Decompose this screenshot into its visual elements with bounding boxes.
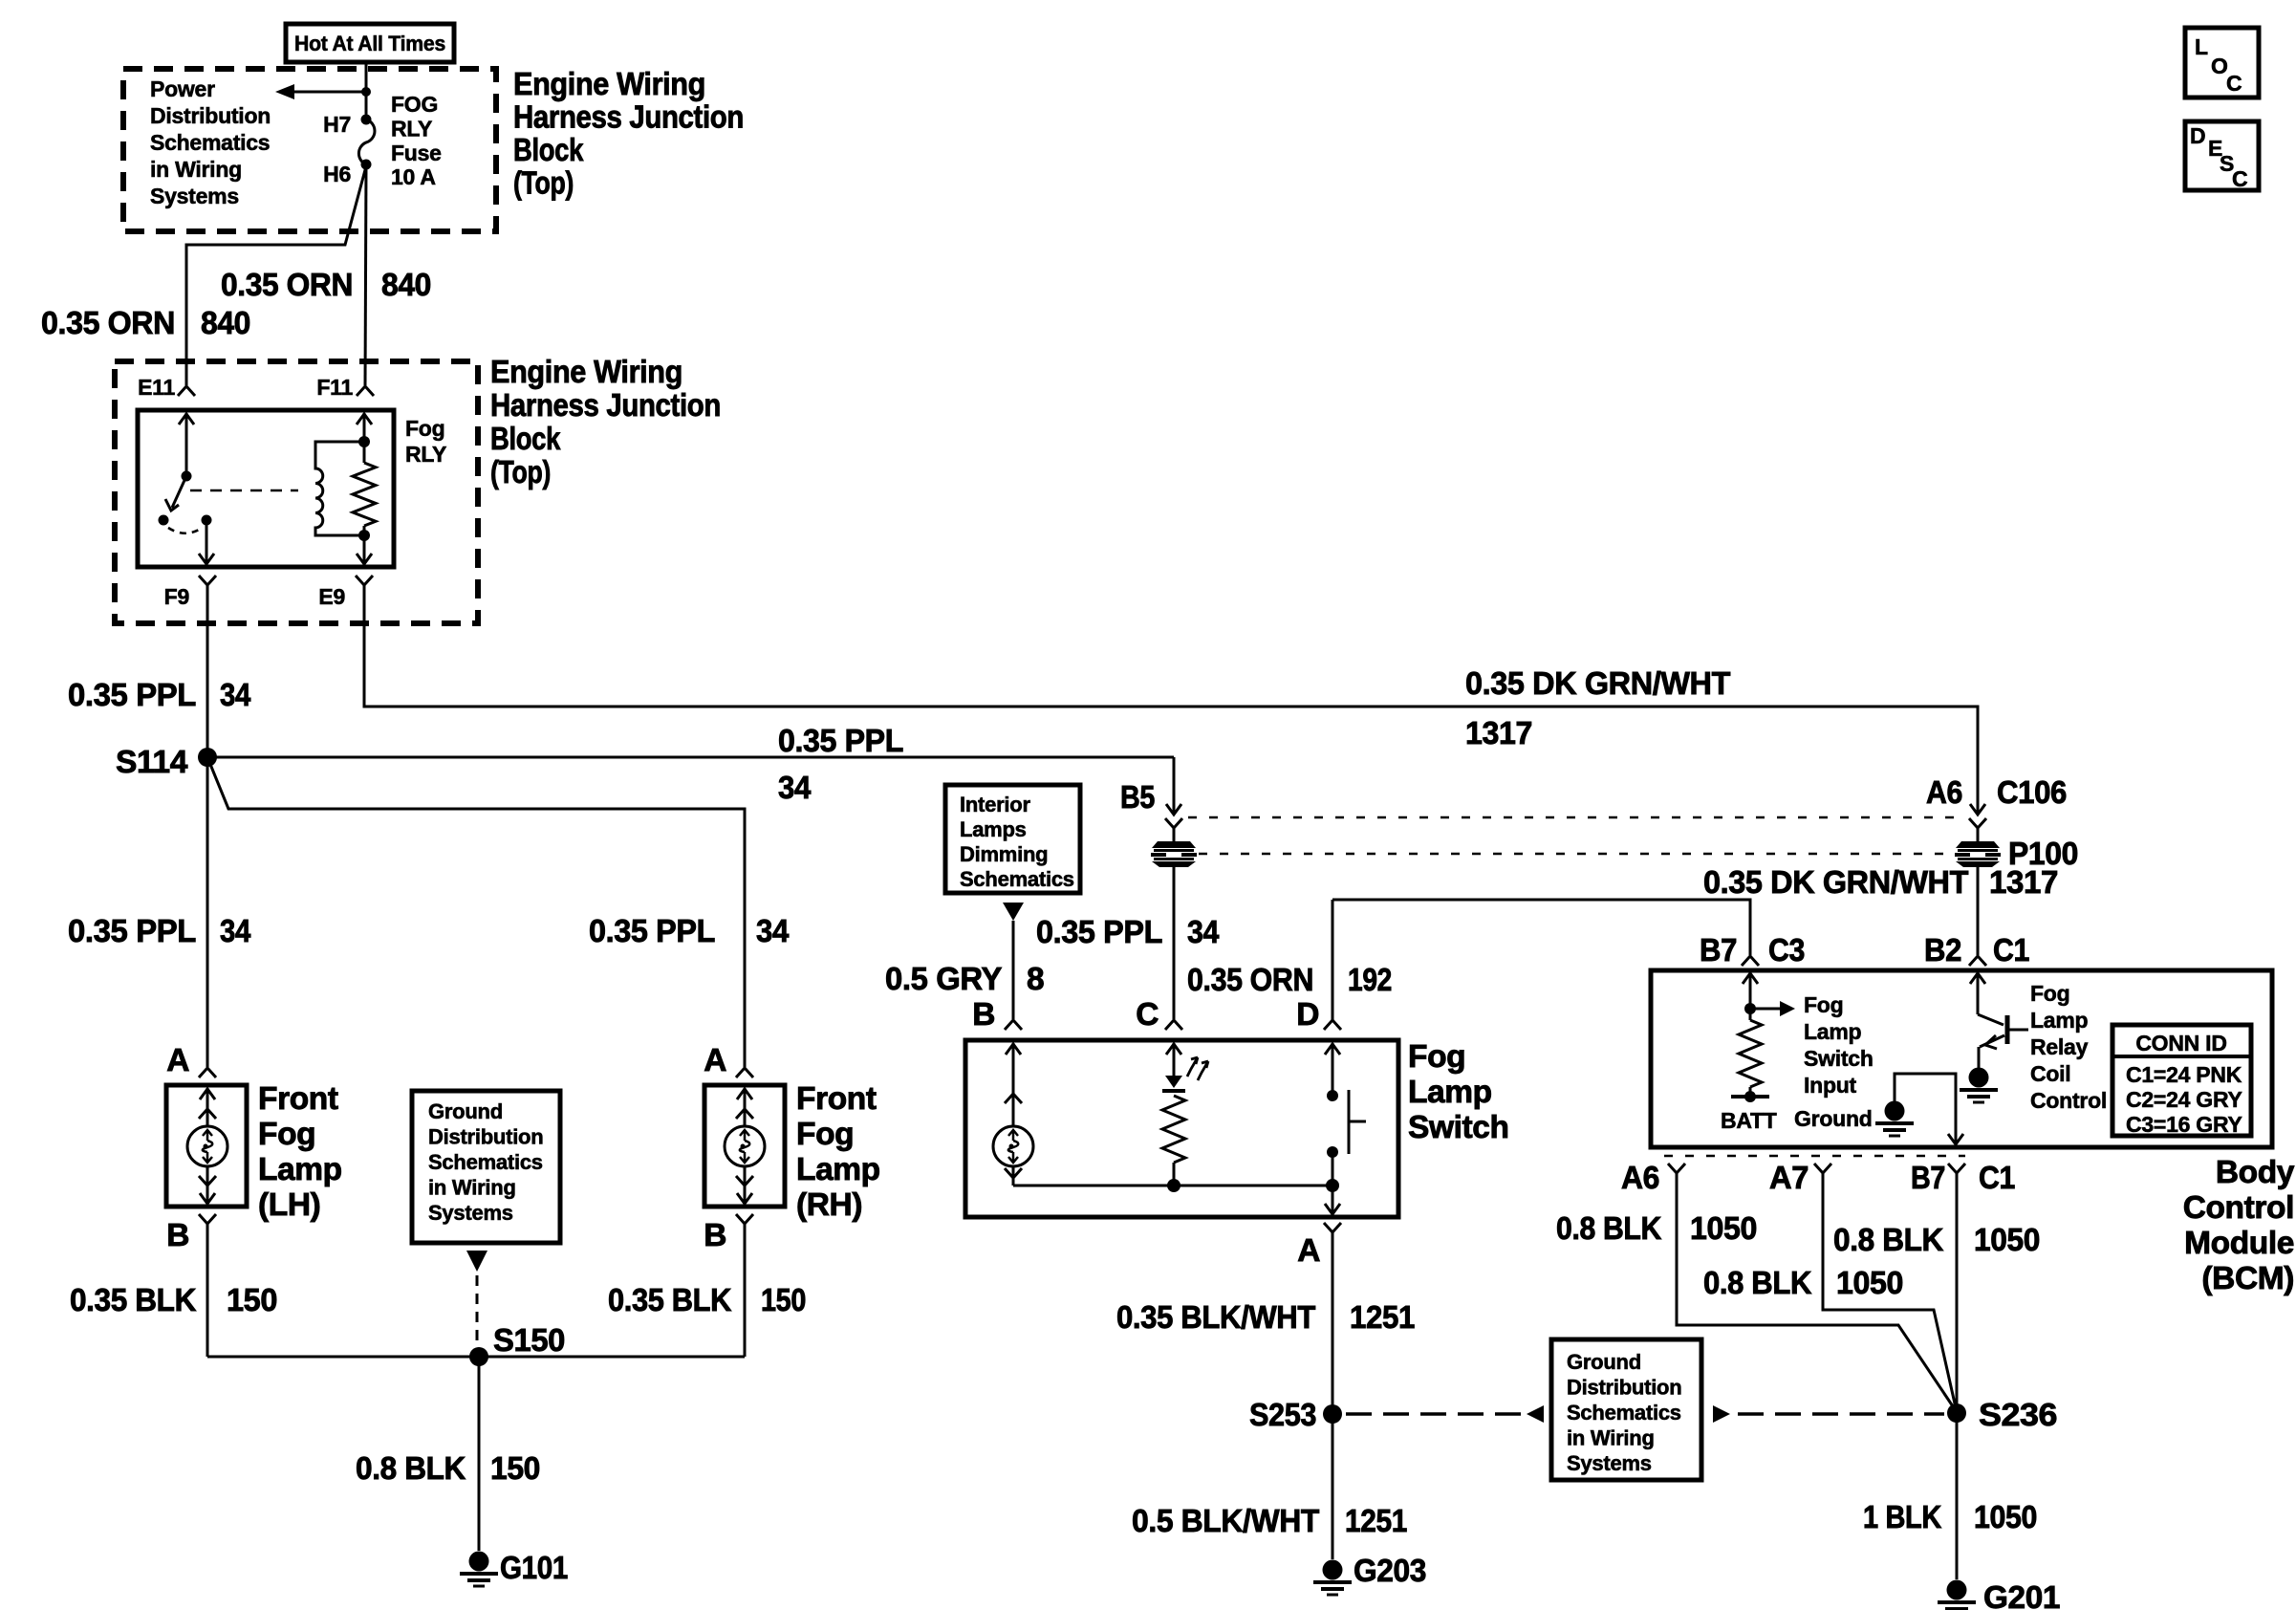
svg-text:Front: Front <box>796 1081 877 1117</box>
svg-text:Systems: Systems <box>428 1201 513 1225</box>
svg-text:G101: G101 <box>500 1551 568 1586</box>
svg-text:0.35 PPL: 0.35 PPL <box>68 914 196 949</box>
svg-text:A: A <box>166 1043 189 1078</box>
svg-text:E11: E11 <box>138 375 175 400</box>
svg-text:1050: 1050 <box>1690 1211 1757 1247</box>
svg-text:B5: B5 <box>1120 780 1155 816</box>
svg-text:Control: Control <box>2183 1190 2294 1226</box>
svg-text:1251: 1251 <box>1345 1504 1407 1539</box>
svg-text:Power: Power <box>150 76 215 101</box>
svg-text:150: 150 <box>490 1451 540 1487</box>
svg-text:A7: A7 <box>1769 1161 1809 1196</box>
svg-text:Fog: Fog <box>1804 992 1843 1017</box>
svg-text:Body: Body <box>2216 1155 2295 1190</box>
svg-text:C1: C1 <box>1993 933 2029 968</box>
svg-text:Lamp: Lamp <box>796 1152 880 1187</box>
svg-text:Relay: Relay <box>2030 1034 2089 1059</box>
svg-text:Switch: Switch <box>1804 1046 1874 1071</box>
svg-text:G203: G203 <box>1354 1554 1426 1589</box>
svg-text:S253: S253 <box>1249 1398 1316 1433</box>
svg-text:Fog: Fog <box>258 1117 315 1152</box>
svg-text:0.35 PPL: 0.35 PPL <box>589 914 715 949</box>
svg-text:C: C <box>1136 997 1159 1033</box>
svg-text:Engine Wiring: Engine Wiring <box>490 355 682 390</box>
svg-text:0.8 BLK: 0.8 BLK <box>356 1451 466 1487</box>
svg-text:0.5 GRY: 0.5 GRY <box>885 962 1002 997</box>
svg-text:Input: Input <box>1804 1073 1857 1098</box>
svg-text:A6: A6 <box>1621 1161 1659 1196</box>
svg-text:RLY: RLY <box>391 116 432 141</box>
svg-text:Schematics: Schematics <box>428 1150 543 1174</box>
svg-text:(Top): (Top) <box>490 455 551 490</box>
svg-text:C3: C3 <box>1768 933 1805 968</box>
svg-text:Coil: Coil <box>2030 1061 2070 1086</box>
svg-text:(BCM): (BCM) <box>2201 1261 2294 1296</box>
svg-text:Fog: Fog <box>2030 981 2069 1006</box>
svg-text:in Wiring: in Wiring <box>428 1176 516 1200</box>
svg-text:S236: S236 <box>1979 1398 2057 1433</box>
svg-text:8: 8 <box>1027 962 1044 997</box>
svg-text:D: D <box>1296 997 1319 1033</box>
svg-text:0.35 PPL: 0.35 PPL <box>778 724 903 759</box>
svg-text:C3=16 GRY: C3=16 GRY <box>2126 1112 2242 1137</box>
svg-text:150: 150 <box>761 1283 806 1318</box>
svg-text:Harness Junction: Harness Junction <box>513 100 744 136</box>
svg-text:in Wiring: in Wiring <box>150 157 242 182</box>
svg-text:Ground: Ground <box>1567 1350 1641 1374</box>
svg-text:S150: S150 <box>493 1323 565 1359</box>
svg-text:Schematics: Schematics <box>150 130 270 155</box>
svg-text:Hot At All Times: Hot At All Times <box>294 32 445 55</box>
svg-text:34: 34 <box>756 914 790 949</box>
svg-text:in Wiring: in Wiring <box>1567 1426 1655 1450</box>
svg-text:G201: G201 <box>1983 1580 2060 1610</box>
svg-text:D: D <box>2190 123 2205 148</box>
svg-text:150: 150 <box>227 1283 277 1318</box>
svg-text:H7: H7 <box>323 112 351 137</box>
svg-text:Ground: Ground <box>1794 1106 1873 1131</box>
svg-text:(Top): (Top) <box>513 166 574 202</box>
svg-text:C: C <box>2226 71 2242 96</box>
svg-text:C: C <box>2232 166 2247 191</box>
svg-text:1317: 1317 <box>1989 865 2058 901</box>
svg-text:A6: A6 <box>1926 775 1962 811</box>
svg-text:0.35 BLK: 0.35 BLK <box>70 1283 196 1318</box>
svg-text:Front: Front <box>258 1081 338 1117</box>
svg-text:Engine Wiring: Engine Wiring <box>513 67 705 102</box>
svg-text:Distribution: Distribution <box>428 1125 543 1149</box>
svg-text:B: B <box>972 997 995 1033</box>
svg-text:Dimming: Dimming <box>960 842 1048 866</box>
svg-text:E9: E9 <box>318 584 345 609</box>
svg-text:Block: Block <box>490 422 561 457</box>
svg-text:Harness Junction: Harness Junction <box>490 388 721 424</box>
svg-text:(LH): (LH) <box>258 1187 320 1223</box>
svg-text:34: 34 <box>1187 915 1220 950</box>
svg-text:34: 34 <box>220 678 251 713</box>
svg-text:C1: C1 <box>1979 1161 2015 1196</box>
svg-text:Fuse: Fuse <box>391 141 442 165</box>
svg-text:O: O <box>2211 54 2228 78</box>
svg-text:Fog: Fog <box>1408 1039 1465 1075</box>
svg-text:Interior: Interior <box>960 793 1030 816</box>
svg-text:0.35 ORN: 0.35 ORN <box>1187 963 1313 998</box>
svg-text:0.8 BLK: 0.8 BLK <box>1833 1223 1943 1258</box>
svg-text:B2: B2 <box>1924 933 1961 968</box>
svg-text:Systems: Systems <box>1567 1451 1652 1475</box>
svg-text:Lamp: Lamp <box>1408 1075 1492 1110</box>
svg-text:34: 34 <box>220 914 251 949</box>
svg-text:Control: Control <box>2030 1088 2107 1113</box>
svg-text:1317: 1317 <box>1465 716 1532 751</box>
svg-text:F9: F9 <box>164 584 189 609</box>
svg-text:L: L <box>2195 34 2208 59</box>
svg-text:Lamp: Lamp <box>258 1152 342 1187</box>
svg-text:0.35 ORN: 0.35 ORN <box>41 306 175 341</box>
svg-text:0.8 BLK: 0.8 BLK <box>1703 1266 1811 1301</box>
svg-text:0.35 PPL: 0.35 PPL <box>68 678 196 713</box>
svg-text:0.35 ORN: 0.35 ORN <box>221 268 353 303</box>
svg-text:0.35 DK GRN/WHT: 0.35 DK GRN/WHT <box>1465 666 1731 702</box>
svg-text:B: B <box>704 1218 726 1253</box>
svg-text:1050: 1050 <box>1836 1266 1903 1301</box>
svg-text:0.35 PPL: 0.35 PPL <box>1036 915 1162 950</box>
svg-text:A: A <box>1297 1233 1320 1269</box>
svg-text:1050: 1050 <box>1974 1500 2037 1535</box>
svg-text:Schematics: Schematics <box>960 867 1074 891</box>
svg-text:0.35 BLK/WHT: 0.35 BLK/WHT <box>1116 1300 1316 1336</box>
svg-text:B7: B7 <box>1700 933 1737 968</box>
svg-text:C2=24 GRY: C2=24 GRY <box>2126 1087 2242 1112</box>
svg-text:RLY: RLY <box>405 442 446 467</box>
svg-text:H6: H6 <box>323 162 351 186</box>
svg-text:Distribution: Distribution <box>1567 1376 1681 1400</box>
svg-text:CONN ID: CONN ID <box>2135 1031 2226 1055</box>
svg-text:0.5 BLK/WHT: 0.5 BLK/WHT <box>1132 1504 1320 1539</box>
svg-text:(RH): (RH) <box>796 1187 862 1223</box>
svg-text:C106: C106 <box>1997 775 2067 811</box>
svg-text:Lamps: Lamps <box>960 817 1027 841</box>
svg-text:C1=24 PNK: C1=24 PNK <box>2126 1062 2242 1087</box>
svg-text:1251: 1251 <box>1350 1300 1415 1336</box>
svg-text:Ground: Ground <box>428 1099 503 1123</box>
svg-text:10 A: 10 A <box>391 164 436 189</box>
svg-text:A: A <box>704 1043 726 1078</box>
svg-text:Lamp: Lamp <box>1804 1019 1862 1044</box>
svg-text:Systems: Systems <box>150 184 239 208</box>
svg-text:Fog: Fog <box>405 416 444 441</box>
svg-text:840: 840 <box>381 268 431 303</box>
svg-text:Switch: Switch <box>1408 1110 1509 1145</box>
svg-text:B: B <box>166 1218 189 1253</box>
svg-text:S114: S114 <box>116 745 188 780</box>
svg-text:Fog: Fog <box>796 1117 854 1152</box>
svg-text:840: 840 <box>201 306 250 341</box>
svg-text:Lamp: Lamp <box>2030 1008 2089 1033</box>
svg-text:F11: F11 <box>316 375 353 400</box>
svg-text:Block: Block <box>513 133 584 168</box>
svg-text:0.35 DK GRN/WHT: 0.35 DK GRN/WHT <box>1703 865 1969 901</box>
svg-text:0.35 BLK: 0.35 BLK <box>608 1283 731 1318</box>
svg-text:1 BLK: 1 BLK <box>1863 1500 1941 1535</box>
svg-text:192: 192 <box>1348 963 1392 998</box>
svg-text:34: 34 <box>778 771 812 806</box>
svg-text:BATT: BATT <box>1721 1108 1777 1133</box>
svg-text:Module: Module <box>2184 1226 2294 1261</box>
svg-text:1050: 1050 <box>1974 1223 2040 1258</box>
svg-text:0.8 BLK: 0.8 BLK <box>1556 1211 1661 1247</box>
svg-text:Schematics: Schematics <box>1567 1401 1681 1425</box>
svg-text:B7: B7 <box>1911 1161 1945 1196</box>
svg-text:Distribution: Distribution <box>150 103 271 128</box>
svg-text:FOG: FOG <box>391 92 438 117</box>
